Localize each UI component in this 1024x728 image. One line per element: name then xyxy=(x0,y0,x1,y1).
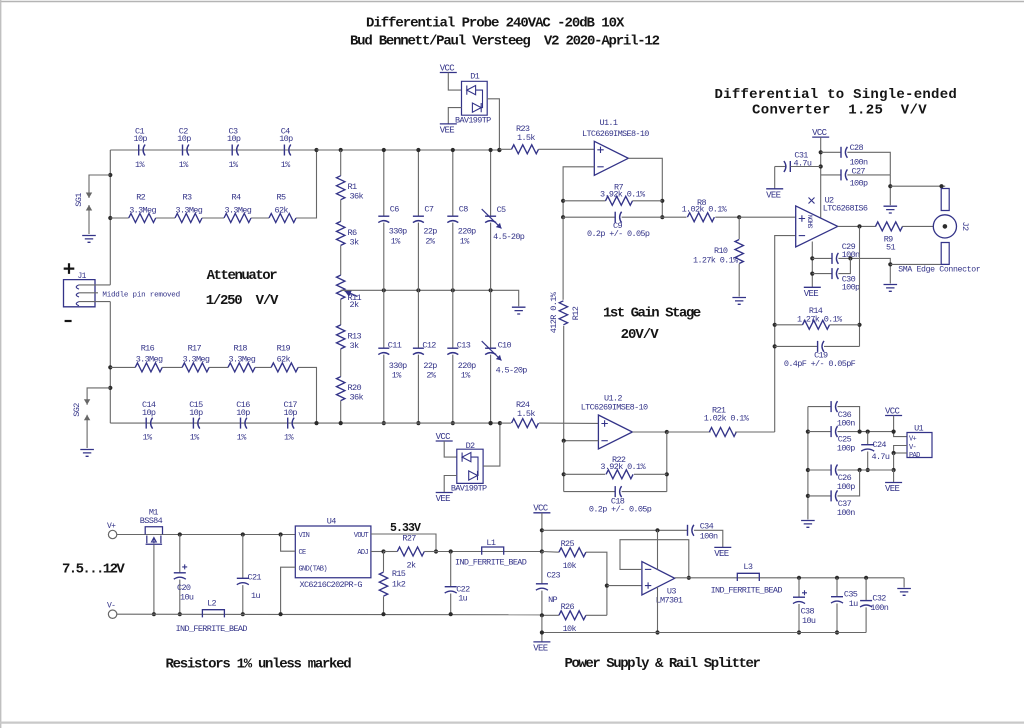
node: junction of R5 riser on top rail xyxy=(314,148,318,152)
ground for SG2 xyxy=(80,450,94,457)
node: column top junction xyxy=(489,148,493,152)
capacitor C22 1u xyxy=(450,552,452,587)
wire: D2 to VEE xyxy=(444,476,457,493)
resistor R4 3.3Meg xyxy=(224,214,251,223)
svg-text:VCC: VCC xyxy=(436,432,452,442)
svg-text:LTC6268IS6: LTC6268IS6 xyxy=(823,204,868,214)
svg-text:C10: C10 xyxy=(498,341,512,351)
svg-text:R19: R19 xyxy=(277,344,291,354)
node: R14 right junction xyxy=(857,323,861,327)
capacitor C1 10p xyxy=(138,145,140,156)
ground for bypass block xyxy=(801,521,815,528)
svg-text:1.27k 0.1%: 1.27k 0.1% xyxy=(797,315,843,325)
wire: R2-R5 row xyxy=(110,217,128,219)
wire: U1.2 inverting input to R12 column xyxy=(564,440,599,442)
node: C20 top junction xyxy=(178,532,182,536)
node: U1.2 output junction xyxy=(665,430,669,434)
node: GND riser junction xyxy=(279,612,283,616)
svg-text:R4: R4 xyxy=(232,193,241,203)
wire: J1 middle pin (removed) xyxy=(79,292,98,294)
svg-text:VEE: VEE xyxy=(766,190,781,200)
node: column bottom junction xyxy=(451,421,455,425)
wire: VCC to U1 V+ xyxy=(894,416,907,437)
svg-text:0.4pF +/- 0.05pF: 0.4pF +/- 0.05pF xyxy=(784,359,856,369)
node: C20 bottom junction xyxy=(178,612,182,616)
svg-text:220p: 220p xyxy=(458,227,476,237)
resistor R11 2k xyxy=(337,275,345,299)
svg-text:C20: C20 xyxy=(177,583,191,593)
svg-text:R13: R13 xyxy=(348,331,362,341)
node: C21 top junction xyxy=(241,532,245,536)
svg-text:10p: 10p xyxy=(236,408,250,418)
svg-text:Resistors 1% unless marked: Resistors 1% unless marked xyxy=(166,657,352,673)
capacitor C6 330p xyxy=(378,215,389,217)
svg-text:1%: 1% xyxy=(135,160,145,170)
wire: vertical column C7/C12 xyxy=(417,150,419,216)
wire: shield to BNC top pad xyxy=(890,185,945,187)
svg-text:VEE: VEE xyxy=(804,289,819,299)
wire: M1 gate to V- rail xyxy=(153,544,155,614)
node: R10 tap junction xyxy=(737,215,741,219)
wire: VCC to D1 xyxy=(448,73,461,91)
resistor R5 62k xyxy=(269,214,296,223)
node: C30 right junction xyxy=(848,256,852,260)
svg-text:VEE: VEE xyxy=(533,644,548,654)
node: R15 bottom junction xyxy=(381,612,385,616)
svg-text:3.3Meg: 3.3Meg xyxy=(183,355,210,365)
wire: J1 pin 3 to lower bus xyxy=(79,301,110,303)
svg-text:1%: 1% xyxy=(143,433,153,443)
svg-text:VCC: VCC xyxy=(533,504,549,514)
resistor R26 10k xyxy=(542,614,559,616)
svg-text:22p: 22p xyxy=(423,361,437,371)
node: divider midpoint junction xyxy=(605,584,609,588)
svg-text:100p: 100p xyxy=(837,482,855,492)
wire: U1.1 inverting input to node xyxy=(563,167,594,217)
node: VCC/C25 junction xyxy=(892,430,896,434)
node: R7 left junction xyxy=(561,199,565,203)
node: C30 junction on VEE stem xyxy=(810,272,814,276)
svg-text:Bud Bennett/Paul Versteeg V2: Bud Bennett/Paul Versteeg V2 2020-April-… xyxy=(350,34,660,50)
svg-text:R17: R17 xyxy=(188,344,202,354)
node: C10 column junction used by R24 xyxy=(489,421,493,425)
svg-text:ADJ: ADJ xyxy=(357,549,368,557)
svg-text:VCC: VCC xyxy=(885,406,901,416)
wire: converter bypass left vertical xyxy=(807,407,809,520)
wire: vertical column C5/C10 xyxy=(490,150,492,216)
resistor R15 1k2 xyxy=(383,552,385,572)
node: mid rail junction xyxy=(416,288,420,292)
capacitor C19 0.4pF xyxy=(775,345,817,347)
node: C24 bottom junction xyxy=(866,468,870,472)
svg-text:BAV199TP: BAV199TP xyxy=(451,484,487,494)
resistor R21 1.02k 0.1% xyxy=(667,431,711,433)
node: column top junction xyxy=(416,148,420,152)
resistor R22 3.92k 0.1% xyxy=(564,473,606,475)
svg-text:VCC: VCC xyxy=(812,128,828,138)
svg-text:L3: L3 xyxy=(743,562,752,572)
capacitor C35 1u xyxy=(836,578,838,597)
svg-text:R27: R27 xyxy=(402,534,416,544)
node: C32 top junction xyxy=(864,576,868,580)
capacitor C12 22p xyxy=(413,347,424,349)
node: VOUT/R27 junction xyxy=(434,549,438,553)
ground for R10 xyxy=(732,298,746,305)
capacitor C29 100n xyxy=(812,257,831,259)
svg-text:C27: C27 xyxy=(852,167,866,177)
node: C35 bottom junction xyxy=(835,630,839,634)
svg-text:1u: 1u xyxy=(251,591,260,601)
svg-text:Attenuator: Attenuator xyxy=(207,268,278,284)
node: R26 left junction xyxy=(540,613,544,617)
svg-text:3.3Meg: 3.3Meg xyxy=(229,355,256,365)
svg-text:4.7u: 4.7u xyxy=(794,159,812,169)
spark gap SG1 xyxy=(89,175,110,176)
ground for SG1 xyxy=(82,236,96,243)
capacitor C32 100n xyxy=(865,578,867,601)
svg-text:IND_FERRITE_BEAD: IND_FERRITE_BEAD xyxy=(711,586,783,596)
svg-text:1st Gain Stage: 1st Gain Stage xyxy=(603,306,701,322)
node: C26 right junction xyxy=(892,468,896,472)
svg-text:10p: 10p xyxy=(177,134,191,144)
resistor R12 412R 0.1% between inverting nodes xyxy=(562,217,564,300)
svg-text:10p: 10p xyxy=(227,134,241,144)
node: M1 gate junction xyxy=(152,612,156,616)
svg-text:Differential Probe 240VAC -20d: Differential Probe 240VAC -20dB 10X xyxy=(366,16,625,32)
svg-text:C6: C6 xyxy=(390,205,399,215)
node: output feedback junction xyxy=(857,224,861,228)
op-amp U1.1 LTC6269IMSE8-10 xyxy=(594,141,628,175)
capacitor C25 100p xyxy=(808,431,831,433)
node: feedback/output junction xyxy=(687,576,691,580)
svg-text:C28: C28 xyxy=(850,143,864,153)
svg-text:1%: 1% xyxy=(229,160,239,170)
wire: CE tied to VIN xyxy=(281,535,296,552)
node: mid rail junction xyxy=(451,288,455,292)
svg-text:1%: 1% xyxy=(460,237,470,247)
node: C37 left junction xyxy=(806,494,810,498)
wire: U1.2 output xyxy=(632,431,666,433)
capacitor C3 10p xyxy=(231,145,233,156)
capacitor C9 0.2p xyxy=(563,216,615,218)
wire: GND(TAB) to V- rail xyxy=(281,567,296,614)
resistor R3 3.3Meg xyxy=(175,214,202,223)
svg-text:10k: 10k xyxy=(563,561,577,571)
node: feedback junction R7 xyxy=(660,199,664,203)
svg-text:U1: U1 xyxy=(914,424,923,434)
capacitor C5 4.5-20p xyxy=(485,215,496,217)
ground of attenuator mid rail xyxy=(512,307,526,314)
node: BNC bottom pad junction xyxy=(888,262,892,266)
capacitor C14 10p xyxy=(145,418,147,429)
IC U4 XC6216C202PR-G regulator xyxy=(295,526,371,578)
svg-text:VEE: VEE xyxy=(714,549,729,559)
node: C24 top junction xyxy=(866,430,870,434)
wire: vertical column C8/C13 xyxy=(452,150,454,216)
inductor L3 ferrite bead xyxy=(737,573,759,581)
svg-text:1.27k 0.1%: 1.27k 0.1% xyxy=(693,256,739,266)
svg-text:1%: 1% xyxy=(190,433,200,443)
node: C25 left junction xyxy=(806,430,810,434)
svg-text:36k: 36k xyxy=(350,393,364,403)
svg-text:LTC6269IMSE8-10: LTC6269IMSE8-10 xyxy=(582,129,649,139)
op-amp U3 LM7301 xyxy=(642,562,675,595)
svg-text:3.3Meg: 3.3Meg xyxy=(176,206,203,216)
svg-text:VIN: VIN xyxy=(299,532,310,540)
node: R16 row junction xyxy=(108,365,112,369)
svg-text:2k: 2k xyxy=(350,300,360,310)
node: D1 junction on top rail xyxy=(497,148,501,152)
capacitor C18 0.2p xyxy=(564,491,616,493)
wire: top rail to ladder column xyxy=(317,149,341,151)
svg-text:R10: R10 xyxy=(714,246,728,256)
wire: top rail to cap columns and D1 xyxy=(341,149,500,151)
node: mid rail junction xyxy=(489,288,493,292)
svg-text:36k: 36k xyxy=(350,192,364,202)
svg-text:SHDN: SHDN xyxy=(808,215,815,229)
wire: U4 ADJ xyxy=(371,551,384,553)
resistor R16 3.3Meg xyxy=(135,363,162,372)
node: C22 top junction xyxy=(449,549,453,553)
svg-text:SMA Edge Connector: SMA Edge Connector xyxy=(898,265,981,275)
svg-text:V-: V- xyxy=(909,444,917,452)
wire: C14-C17 rail xyxy=(110,422,500,424)
node: R2 row junction xyxy=(108,216,112,220)
ground for splitter output xyxy=(903,578,905,588)
node: C9 left junction / R12 top xyxy=(561,215,565,219)
no-connect X mark on U2 SHDN pin xyxy=(809,198,815,204)
svg-text:R15: R15 xyxy=(392,569,406,579)
svg-text:0.2p +/- 0.05p: 0.2p +/- 0.05p xyxy=(589,505,652,515)
node: SG1 tap junction xyxy=(108,173,112,177)
node: mid rail junction xyxy=(382,288,386,292)
page edge frame xyxy=(0,1,1024,3)
resistor R18 3.3Meg xyxy=(228,363,255,372)
node: SG2 tap junction xyxy=(108,386,112,390)
node: R19 riser junction xyxy=(314,421,318,425)
wire: U3 output row xyxy=(675,577,904,579)
node: C19 left junction xyxy=(773,344,777,348)
spark gap SG2 xyxy=(87,388,110,389)
node: column bottom junction xyxy=(489,421,493,425)
svg-text:100n: 100n xyxy=(837,508,855,518)
node: VCC/R25 junction xyxy=(540,549,544,553)
wire: output vertical to C18 xyxy=(666,432,668,492)
svg-text:SG1: SG1 xyxy=(74,193,84,207)
wire: U4 VOUT 5.33V xyxy=(371,534,436,552)
resistor R14 1.27k 0.1% xyxy=(775,324,803,326)
capacitor C23 NP xyxy=(541,552,543,584)
transistor M1 BSS84 xyxy=(145,527,162,535)
svg-text:U1.1: U1.1 xyxy=(600,118,618,128)
svg-text:1%: 1% xyxy=(281,160,291,170)
svg-text:0.2p +/- 0.05p: 0.2p +/- 0.05p xyxy=(587,229,650,239)
svg-text:VCC: VCC xyxy=(440,63,456,73)
svg-text:1%: 1% xyxy=(392,371,402,381)
wire: ladder column verticals xyxy=(340,150,342,176)
svg-text:1%: 1% xyxy=(237,433,247,443)
svg-text:330p: 330p xyxy=(389,361,407,371)
resistor R19 62k xyxy=(271,363,298,372)
capacitor C37 100n xyxy=(808,495,831,497)
wire: D1 to VEE xyxy=(448,108,461,124)
svg-text:IND_FERRITE_BEAD: IND_FERRITE_BEAD xyxy=(176,624,248,634)
svg-text:1.02k 0.1%: 1.02k 0.1% xyxy=(682,205,728,215)
svg-text:C23: C23 xyxy=(547,571,561,581)
svg-text:10u: 10u xyxy=(180,593,194,603)
svg-text:IND_FERRITE_BEAD: IND_FERRITE_BEAD xyxy=(455,558,527,568)
svg-text:412R 0.1%: 412R 0.1% xyxy=(549,291,559,333)
node: ladder top xyxy=(339,148,343,152)
node: column bottom junction xyxy=(416,421,420,425)
svg-text:C13: C13 xyxy=(457,341,471,351)
capacitor C4 10p xyxy=(283,145,285,156)
capacitor C17 10p xyxy=(287,418,289,429)
resistor R2 3.3Meg xyxy=(129,214,156,223)
op-amp U1.2 LTC6269IMSE8-10 xyxy=(598,415,632,449)
inductor L2 ferrite bead xyxy=(202,610,224,618)
capacitor C15 10p xyxy=(192,418,194,429)
node: C26/C37 junction xyxy=(858,468,862,472)
svg-text:PAD: PAD xyxy=(909,452,920,460)
svg-text:10p: 10p xyxy=(284,408,298,418)
node: C38 top junction xyxy=(797,576,801,580)
svg-text:SG2: SG2 xyxy=(72,403,82,417)
svg-text:1u: 1u xyxy=(458,594,467,604)
wire: U3 supply from VCC row xyxy=(657,530,659,569)
svg-text:VEE: VEE xyxy=(885,484,900,494)
op-amp U2 LTC6268IS6 xyxy=(796,206,838,247)
svg-text:D1: D1 xyxy=(470,72,479,82)
wire: left input bus from J1 up to C1 rail xyxy=(109,150,111,285)
wire: R16-R19 row xyxy=(110,366,135,368)
svg-text:C21: C21 xyxy=(248,573,262,583)
wire: 5.33V rail to splitter xyxy=(436,551,542,553)
wire: V- rail (VEE) xyxy=(117,613,542,616)
wire: U1.1 output to feedback node xyxy=(628,158,662,217)
wire: splitter VEE row xyxy=(542,632,866,634)
wire: J1 pin 1 to bus xyxy=(79,284,110,286)
svg-text:1.5k: 1.5k xyxy=(517,409,535,419)
svg-text:R1: R1 xyxy=(348,182,358,192)
svg-text:BSS84: BSS84 xyxy=(140,516,163,526)
capacitor C24 4.7u xyxy=(867,432,869,445)
svg-text:LTC6269IMSE8-10: LTC6269IMSE8-10 xyxy=(581,403,648,413)
node: VEE row junction xyxy=(540,630,544,634)
svg-text:3.3Meg: 3.3Meg xyxy=(129,206,156,216)
svg-text:CE: CE xyxy=(299,549,307,557)
inductor L1 ferrite bead xyxy=(482,547,504,555)
svg-text:BAV199TP: BAV199TP xyxy=(455,116,491,126)
svg-text:330p: 330p xyxy=(389,227,407,237)
node: R22 left junction xyxy=(562,472,566,476)
capacitor C31 4.7u xyxy=(775,166,787,168)
svg-text:C7: C7 xyxy=(424,205,433,215)
capacitor C16 10p xyxy=(240,418,242,429)
svg-text:62k: 62k xyxy=(275,206,289,216)
svg-text:R5: R5 xyxy=(277,193,286,203)
svg-text:VOUT: VOUT xyxy=(354,532,369,540)
wire: C31 left to VEE xyxy=(774,167,776,189)
svg-text:100n: 100n xyxy=(837,419,855,429)
svg-text:4.5-20p: 4.5-20p xyxy=(496,366,528,376)
svg-text:10p: 10p xyxy=(279,134,293,144)
node: column top junction xyxy=(382,148,386,152)
wire: VCC stem to U2 supply xyxy=(820,137,822,218)
resistor R8 1.02k 0.1% xyxy=(662,216,686,218)
resistor R20 36k xyxy=(337,377,345,401)
node: C26 left junction xyxy=(806,468,810,472)
svg-text:L1: L1 xyxy=(486,538,495,548)
svg-text:C34: C34 xyxy=(700,522,714,532)
svg-text:L2: L2 xyxy=(207,599,216,609)
svg-text:C32: C32 xyxy=(872,594,886,604)
capacitor C28 100n xyxy=(821,151,841,153)
resistor R23 1.5k xyxy=(499,148,511,150)
svg-text:V-: V- xyxy=(107,602,115,611)
node: C31/C27 junction xyxy=(819,164,823,168)
capacitor C26 100p xyxy=(808,469,831,471)
svg-text:100p: 100p xyxy=(837,444,855,454)
svg-text:100p: 100p xyxy=(842,283,860,293)
svg-text:C11: C11 xyxy=(388,341,402,351)
svg-text:2%: 2% xyxy=(425,237,435,247)
diode pair D1 BAV199TP xyxy=(462,81,488,115)
node: column top junction xyxy=(451,148,455,152)
svg-text:C5: C5 xyxy=(497,205,506,215)
svg-text:C24: C24 xyxy=(873,440,887,450)
svg-text:2k: 2k xyxy=(407,561,416,571)
wire: midpoint to U3 non-inverting input xyxy=(607,585,642,587)
svg-text:51: 51 xyxy=(886,243,895,253)
svg-text:20V/V: 20V/V xyxy=(621,327,660,343)
capacitor C30 100p xyxy=(812,273,831,275)
svg-text:NP: NP xyxy=(548,595,557,605)
svg-text:4.5-20p: 4.5-20p xyxy=(493,232,525,242)
svg-text:D2: D2 xyxy=(466,441,475,451)
node: C22 bottom junction xyxy=(449,612,453,616)
wire: feedback from output down to R14/C19 xyxy=(859,226,861,346)
wire: U2 output xyxy=(838,225,876,227)
svg-text:U4: U4 xyxy=(327,517,336,527)
svg-text:Converter 1.25 V/V: Converter 1.25 V/V xyxy=(752,103,927,119)
svg-text:R16: R16 xyxy=(141,344,155,354)
svg-text:LM7301: LM7301 xyxy=(656,596,683,606)
node: C28 junction xyxy=(819,150,823,154)
svg-text:C12: C12 xyxy=(422,341,436,351)
svg-text:3k: 3k xyxy=(350,237,360,247)
resistor R24 1.5k xyxy=(500,422,511,424)
svg-text:XC6216C202PR-G: XC6216C202PR-G xyxy=(300,580,363,590)
wire: VEE stem at splitter xyxy=(541,615,543,642)
wire: D1 output to top rail xyxy=(487,99,499,150)
wire: VCC to D2 xyxy=(444,441,457,457)
svg-text:C38: C38 xyxy=(801,607,815,617)
wire: U3 supply to VEE row xyxy=(657,587,659,633)
wire: BNC bottom pad to ground node xyxy=(890,263,941,265)
wire: top capacitor rail C1-C4 xyxy=(110,149,316,151)
IC U1 power pad xyxy=(907,433,932,458)
wire: R21 to U2 inverting input xyxy=(775,236,796,432)
wire: attenuator mid rail (R11 wiper to ground) xyxy=(341,290,519,306)
svg-text:R12: R12 xyxy=(571,306,581,320)
node: U3 V+ junction xyxy=(655,528,659,532)
svg-text:1u: 1u xyxy=(849,599,858,609)
svg-text:1%: 1% xyxy=(179,160,189,170)
svg-text:220p: 220p xyxy=(458,361,476,371)
terminal V- xyxy=(108,610,116,618)
svg-text:7.5...12V: 7.5...12V xyxy=(62,562,125,578)
